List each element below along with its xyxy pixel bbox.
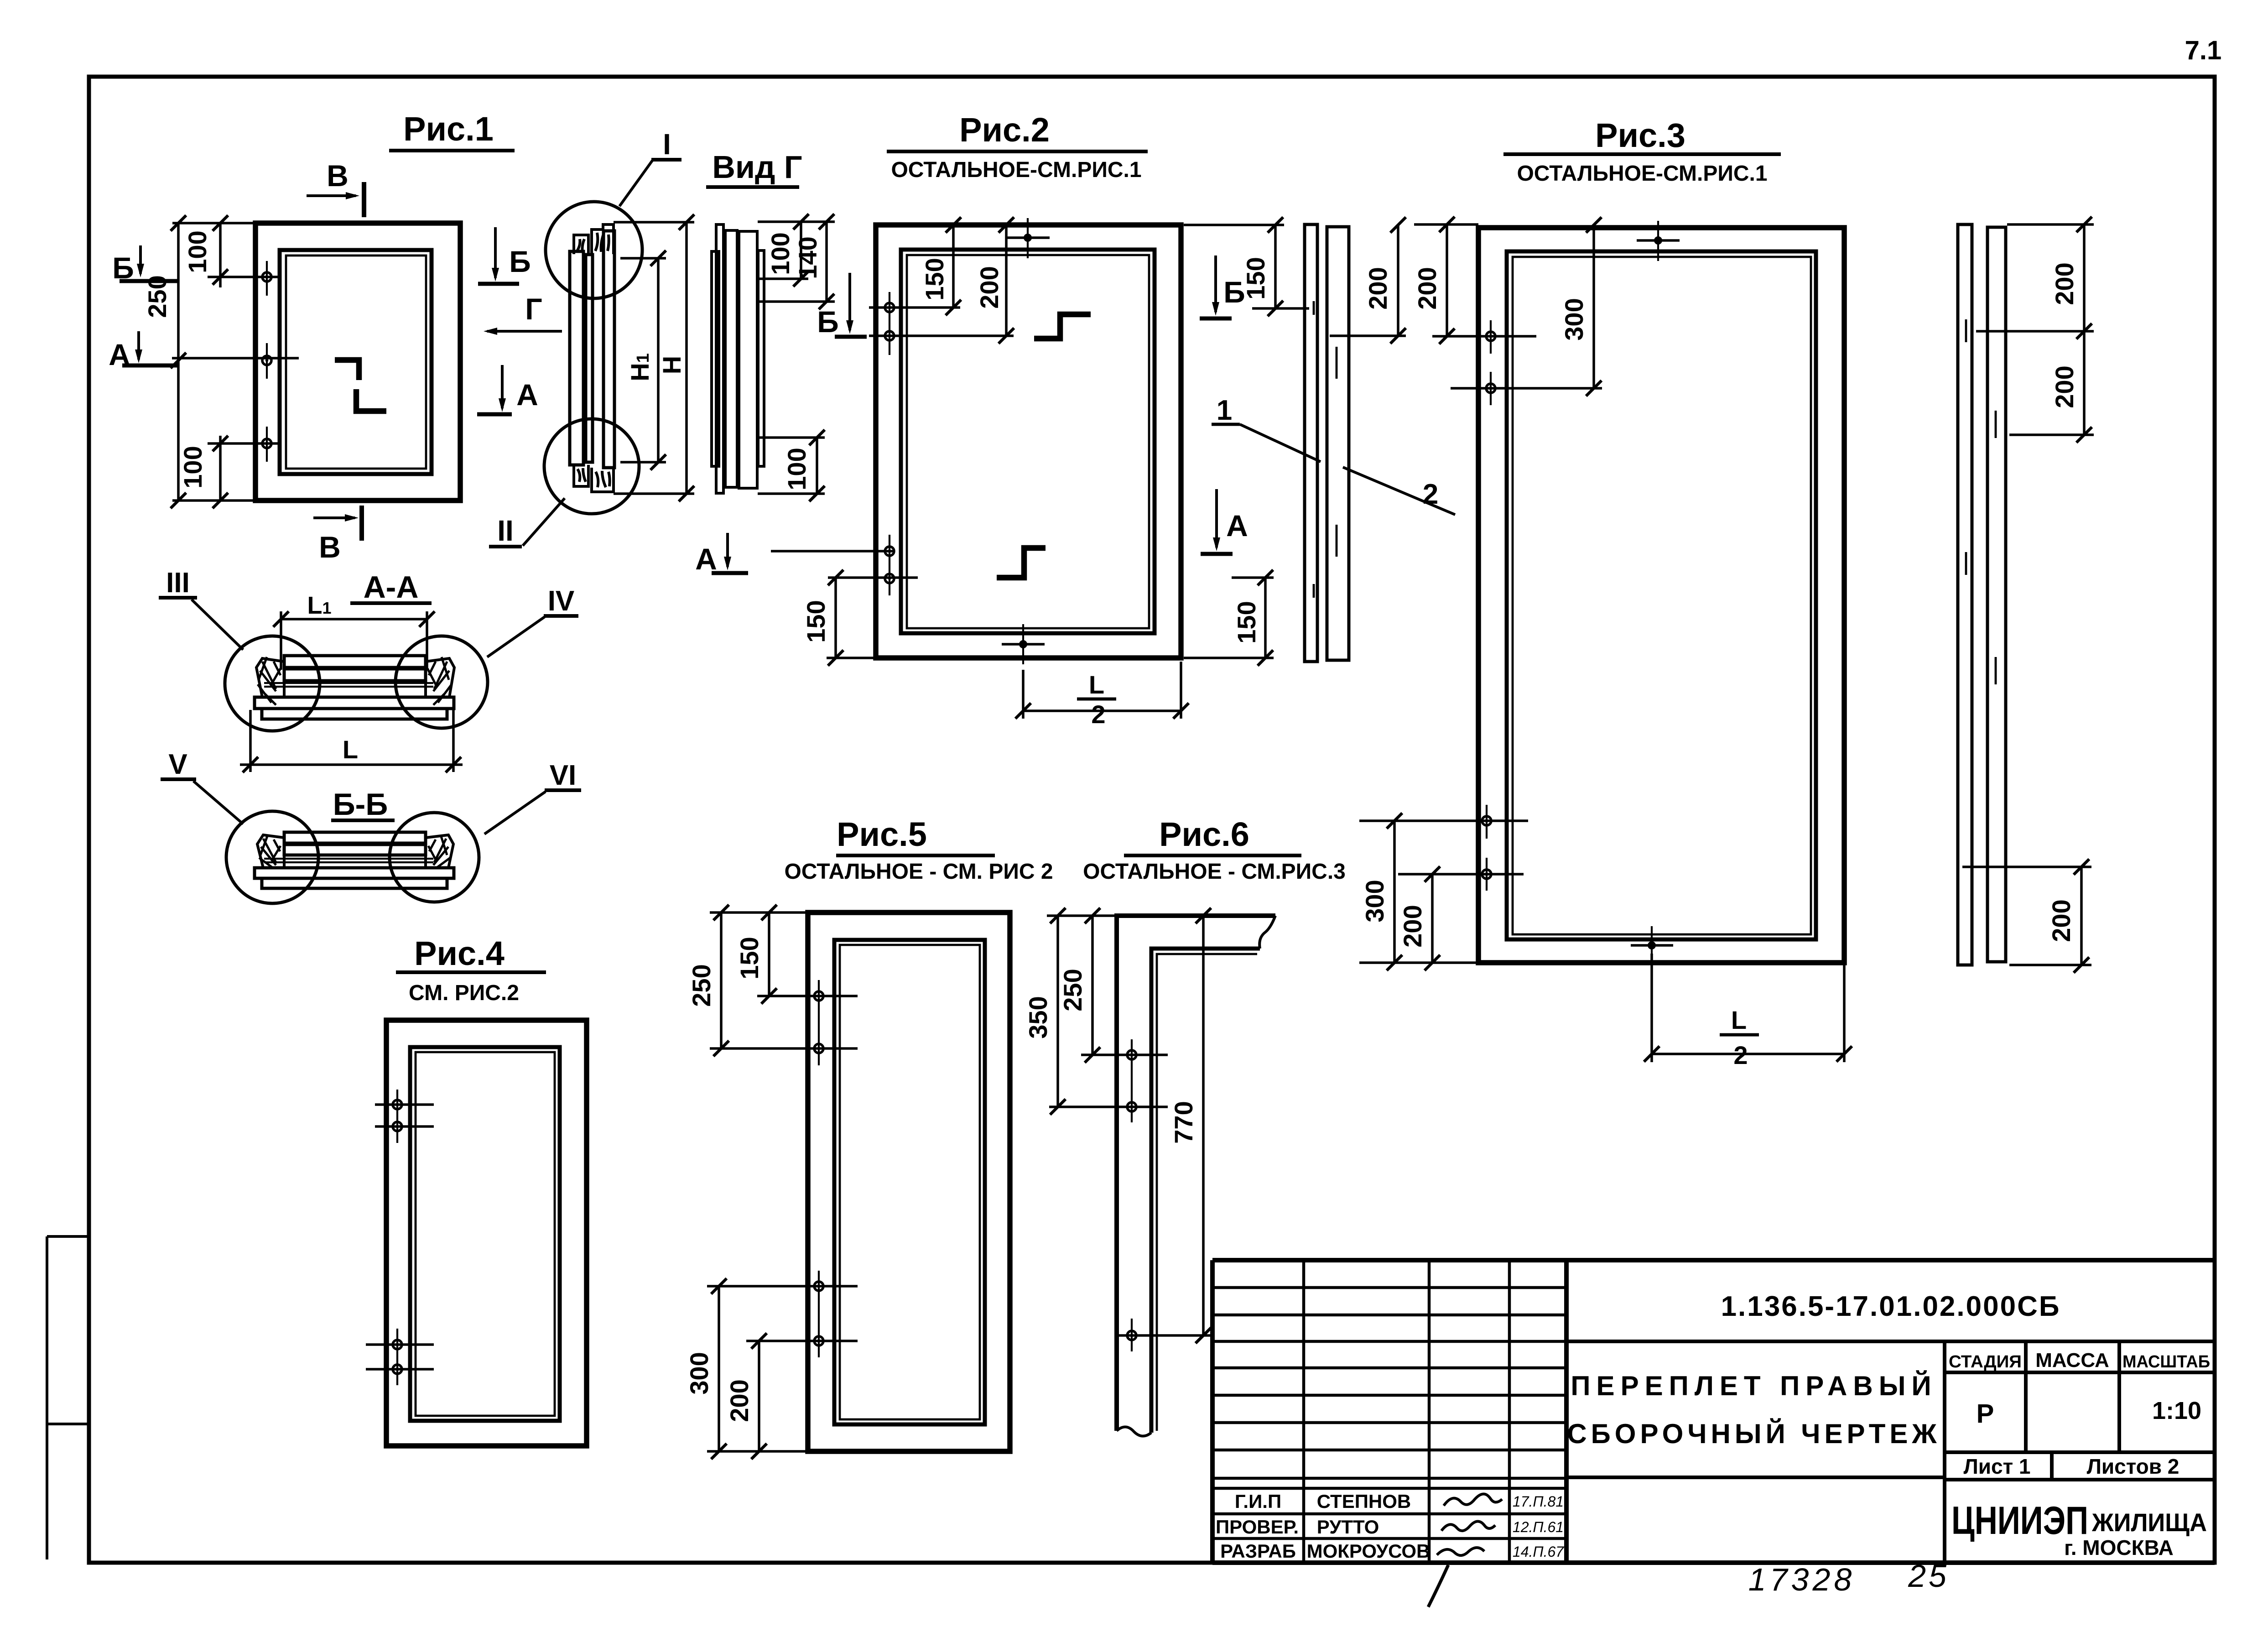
svg-text:СМ. РИС.2: СМ. РИС.2	[409, 981, 519, 1005]
svg-text:L1: L1	[307, 592, 331, 619]
svg-text:200: 200	[1363, 267, 1392, 309]
fig3 left strip profile	[1305, 224, 1349, 662]
svg-text:L: L	[343, 735, 358, 764]
svg-text:200: 200	[2050, 365, 2079, 408]
fig2 top dim 200	[937, 225, 1018, 337]
svg-text:IV: IV	[548, 585, 575, 617]
svg-text:II: II	[497, 514, 514, 547]
svg-text:А: А	[1226, 509, 1248, 542]
title block right part grid	[1566, 1341, 2215, 1563]
fig2 hinges	[885, 303, 894, 312]
fig5 hinges	[814, 991, 823, 1001]
svg-text:А: А	[516, 378, 538, 412]
svg-text:250: 250	[1058, 969, 1087, 1011]
detail circle I	[546, 202, 642, 298]
fig3 top bolt	[1654, 236, 1662, 245]
svg-text:300: 300	[1560, 298, 1588, 340]
fig3 top-left dim 200	[1414, 224, 1536, 337]
svg-text:Р: Р	[1977, 1399, 1994, 1429]
svg-text:Г.И.П: Г.И.П	[1235, 1491, 1281, 1512]
fig1 dim ticks	[171, 215, 186, 231]
view Г profile stack	[712, 224, 764, 493]
svg-text:В: В	[327, 159, 349, 193]
fig5 sash outer frame	[808, 913, 1010, 1451]
view Г dim 140	[758, 222, 835, 302]
svg-text:В: В	[319, 530, 341, 564]
svg-text:ОСТАЛЬНОЕ-СМ.РИС.1: ОСТАЛЬНОЕ-СМ.РИС.1	[891, 158, 1141, 182]
A-A section bars	[255, 656, 454, 719]
svg-text:200: 200	[1413, 267, 1441, 309]
fig3 sash outer frame	[1478, 228, 1844, 963]
fig2/fig3 gap dim 200	[1330, 225, 1406, 336]
bottom wood blocks	[574, 465, 614, 492]
fig5 hinge tick lines	[707, 996, 858, 1341]
svg-text:150: 150	[920, 258, 949, 300]
svg-text:200: 200	[725, 1379, 754, 1422]
svg-text:100: 100	[782, 448, 811, 490]
svg-text:L: L	[1089, 670, 1104, 699]
svg-text:СТЕПНОВ: СТЕПНОВ	[1317, 1491, 1411, 1512]
svg-text:Рис.6: Рис.6	[1159, 815, 1249, 853]
svg-text:25: 25	[1908, 1558, 1949, 1594]
svg-text:2: 2	[1091, 700, 1105, 729]
Б-Б left end block	[255, 835, 284, 868]
svg-text:ОСТАЛЬНОЕ-СМ.РИС.1: ОСТАЛЬНОЕ-СМ.РИС.1	[1517, 162, 1767, 186]
fig2 bottom-right dim 150	[1184, 578, 1274, 658]
svg-text:РАЗРАБ: РАЗРАБ	[1220, 1540, 1296, 1562]
fig4 hinges	[393, 1100, 402, 1109]
title block outer	[1212, 1260, 2215, 1563]
fig3 opening inner frame	[1507, 251, 1816, 939]
svg-text:Г: Г	[525, 292, 542, 326]
svg-text:МАССА: МАССА	[2035, 1349, 2109, 1371]
side view bars	[570, 231, 614, 468]
svg-text:300: 300	[685, 1352, 713, 1394]
fig2 sash outer frame	[876, 225, 1181, 658]
title block left table rows	[1212, 1288, 1566, 1538]
top wood blocks	[574, 224, 614, 254]
strip latch notches	[1314, 301, 1337, 598]
fig1 opening inner frame	[280, 250, 432, 474]
fig2 bottom dim L/2	[1023, 662, 1181, 719]
svg-text:150: 150	[735, 937, 764, 979]
svg-text:Лист 1: Лист 1	[1963, 1455, 2030, 1478]
fig3 bottom dim L/2	[1652, 954, 1844, 1062]
svg-text:100: 100	[766, 232, 795, 275]
svg-text:12.П.61: 12.П.61	[1513, 1519, 1564, 1535]
svg-text:РУТТО: РУТТО	[1317, 1516, 1379, 1538]
svg-text:350: 350	[1024, 996, 1052, 1038]
fig3 hinges bottom pair	[1486, 805, 1488, 891]
stray signature stroke below stamp	[1428, 1565, 1448, 1607]
svg-text:МАСШТАБ: МАСШТАБ	[2122, 1352, 2210, 1371]
signature Рутто	[1441, 1521, 1495, 1531]
fig6 dim 350	[1047, 916, 1117, 1107]
svg-text:VI: VI	[550, 760, 577, 791]
svg-text:г. МОСКВА: г. МОСКВА	[2064, 1536, 2174, 1559]
svg-text:Рис.4: Рис.4	[414, 934, 505, 972]
svg-text:III: III	[166, 567, 190, 599]
fig6 top break line	[1259, 916, 1275, 949]
svg-text:ОСТАЛЬНОЕ - СМ. РИС 2: ОСТАЛЬНОЕ - СМ. РИС 2	[784, 860, 1053, 884]
fig2 opening inner frame	[901, 250, 1155, 633]
dim L	[240, 710, 463, 772]
fig2 bottom-left dim 150	[834, 578, 837, 658]
signature Мокроусов	[1437, 1548, 1484, 1555]
svg-text:100: 100	[178, 446, 207, 488]
fig2 top bolt	[1024, 234, 1032, 242]
Б-Б right end block	[426, 835, 453, 868]
fig6 bottom break line	[1117, 1427, 1151, 1436]
fig1 hinge axis	[266, 261, 268, 462]
fig3 right dim 200 bottom	[1962, 867, 2091, 965]
svg-text:ПРОВЕР.: ПРОВЕР.	[1216, 1516, 1299, 1538]
svg-text:L: L	[1731, 1006, 1747, 1034]
fig1 sash outer frame	[255, 223, 460, 501]
fig6 corner piece	[1117, 916, 1275, 1431]
fig5 hinge axes	[818, 980, 820, 1357]
svg-text:Н: Н	[657, 356, 686, 374]
right strip notches	[1966, 319, 1996, 684]
svg-text:ЖИЛИЩА: ЖИЛИЩА	[2091, 1508, 2207, 1537]
fig6 hinge axes	[1131, 1039, 1133, 1351]
svg-text:7.1: 7.1	[2185, 36, 2222, 65]
fig3 right strip profile	[1958, 224, 2006, 965]
fig2/fig3 gap dim 150	[1184, 225, 1309, 308]
detail circle II	[544, 419, 639, 514]
fig5 dim 200	[758, 1341, 760, 1451]
svg-text:V: V	[168, 749, 187, 780]
fig6 hinges	[1127, 1050, 1136, 1059]
fig3 top dim 300	[1451, 225, 1602, 389]
svg-text:14.П.67: 14.П.67	[1513, 1544, 1564, 1560]
A-A detail circle III	[225, 636, 320, 731]
svg-text:200: 200	[975, 266, 1004, 308]
svg-text:770: 770	[1169, 1101, 1198, 1143]
svg-text:1:10: 1:10	[2152, 1397, 2201, 1424]
svg-text:Б: Б	[509, 245, 531, 278]
Б-Б glazing lines	[264, 858, 433, 860]
Б-Б detail circle V	[226, 811, 318, 903]
Б-Б detail circle VI	[390, 813, 479, 902]
fig4 hinge axes	[396, 1090, 398, 1385]
fig1 dimension extensions	[172, 222, 255, 501]
svg-text:17328: 17328	[1748, 1562, 1856, 1597]
svg-text:2: 2	[1733, 1041, 1748, 1069]
svg-text:Рис.5: Рис.5	[837, 815, 927, 853]
svg-text:150: 150	[801, 600, 830, 642]
svg-text:1: 1	[1217, 395, 1232, 426]
svg-text:ПЕРЕПЛЕТ ПРАВЫЙ: ПЕРЕПЛЕТ ПРАВЫЙ	[1571, 1371, 1937, 1401]
fig2 bottom bolt	[1019, 640, 1027, 648]
fig3 hinges top pair	[1490, 320, 1492, 405]
view Г dim 100 bottom	[758, 438, 825, 494]
view Г dim 100 top	[758, 222, 808, 279]
fig3 bottom bolt	[1648, 941, 1656, 949]
fig3 bottom-left dim 300	[1359, 821, 1528, 963]
dim H1	[620, 258, 666, 462]
svg-text:Листов 2: Листов 2	[2087, 1455, 2180, 1478]
fig5 dim 300	[707, 1286, 810, 1451]
fig4 sash outer frame	[386, 1020, 587, 1446]
svg-text:А-А: А-А	[364, 570, 419, 605]
fig2 opening-direction step top	[1034, 314, 1091, 339]
svg-text:Рис.2: Рис.2	[959, 111, 1050, 149]
fig1 hinge tick lines	[172, 277, 299, 443]
dim H	[614, 222, 694, 494]
A-A glazing lines	[264, 682, 433, 684]
fig5 dim 250	[710, 913, 817, 1048]
svg-text:200: 200	[2050, 262, 2079, 305]
svg-text:Вид Г: Вид Г	[712, 149, 802, 185]
fig1 opening-direction symbols	[335, 360, 359, 380]
A-A detail circle IV	[395, 636, 488, 728]
svg-text:150: 150	[1232, 601, 1261, 643]
svg-text:Б: Б	[817, 305, 838, 339]
svg-text:Рис.1: Рис.1	[403, 110, 494, 148]
svg-text:200: 200	[2047, 899, 2076, 942]
svg-text:200: 200	[1398, 905, 1427, 947]
fig2 hinge axis	[889, 292, 890, 595]
svg-text:СТАДИЯ: СТАДИЯ	[1949, 1352, 2022, 1371]
fig2 opening-direction step bottom	[997, 548, 1046, 578]
svg-text:СБОРОЧНЫЙ ЧЕРТЕЖ: СБОРОЧНЫЙ ЧЕРТЕЖ	[1567, 1418, 1940, 1449]
fig3 bottom-left dim 200	[1398, 874, 1524, 963]
svg-text:100: 100	[183, 230, 212, 273]
svg-text:140: 140	[793, 236, 822, 279]
A-A right end block	[426, 658, 454, 697]
svg-text:250: 250	[687, 964, 716, 1006]
svg-text:Н1: Н1	[625, 353, 654, 381]
A-A left end block	[255, 658, 284, 697]
left edge stamp strip	[46, 1236, 48, 1559]
svg-text:17.П.81: 17.П.81	[1513, 1493, 1564, 1510]
fig3 right dim 200 #1	[1976, 224, 2094, 435]
fig5 dim 150	[768, 913, 770, 996]
fig2 top dim 150	[952, 225, 955, 308]
svg-text:Рис.3: Рис.3	[1595, 116, 1685, 154]
fig6 hinge tick lines	[1049, 1055, 1212, 1343]
fig4 hinge tick lines	[366, 1105, 434, 1369]
signature Степнов	[1444, 1494, 1502, 1506]
svg-text:МОКРОУСОВ: МОКРОУСОВ	[1307, 1540, 1431, 1562]
fig6 dim 770	[1202, 916, 1205, 1335]
svg-text:ОСТАЛЬНОЕ - СМ.РИС.3: ОСТАЛЬНОЕ - СМ.РИС.3	[1083, 860, 1346, 884]
fig5 opening inner frame	[834, 940, 985, 1424]
svg-text:1.136.5-17.01.02.000СБ: 1.136.5-17.01.02.000СБ	[1721, 1291, 2061, 1322]
Б-Б section bars	[255, 832, 454, 888]
svg-text:300: 300	[1360, 880, 1389, 922]
svg-text:I: I	[663, 128, 671, 161]
fig1 hinges	[262, 272, 271, 282]
svg-text:150: 150	[1241, 257, 1270, 299]
svg-text:А: А	[695, 542, 717, 576]
fig4 opening inner frame	[410, 1047, 560, 1421]
title block left table columns	[1304, 1260, 1509, 1563]
svg-text:Б-Б: Б-Б	[333, 787, 388, 822]
fig6 dim 250	[1091, 916, 1094, 1055]
fig2 hinge extension lines	[771, 308, 1014, 578]
